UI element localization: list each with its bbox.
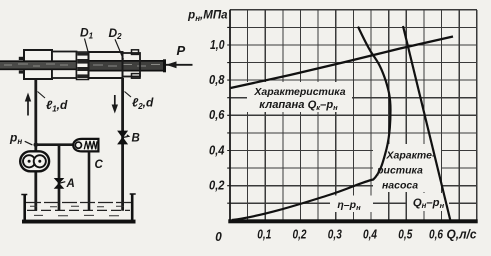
leader Pn <box>25 141 33 145</box>
leader D1 <box>85 39 89 52</box>
housing left tab <box>19 57 24 60</box>
svg-text:C: C <box>95 159 104 171</box>
shaft left section <box>0 60 78 70</box>
pipe l2 vertical <box>121 78 124 211</box>
pump flow curve Qn-pn <box>403 26 451 221</box>
svg-text:0,6: 0,6 <box>209 107 225 122</box>
svg-text:0,4: 0,4 <box>363 228 377 242</box>
svg-text:0,3: 0,3 <box>328 228 342 242</box>
label box Qn-pn <box>407 193 449 211</box>
shaft right section <box>89 59 167 72</box>
relief valve C (ball + spring) <box>73 139 98 152</box>
svg-text:0,8: 0,8 <box>209 72 225 87</box>
liquid line 2 <box>27 209 130 211</box>
flange bottom bolt <box>132 74 141 79</box>
svg-text:0,2: 0,2 <box>293 228 307 242</box>
svg-text:P: P <box>177 43 186 58</box>
svg-text:ристика: ристика <box>376 165 423 177</box>
cylinder housing left block <box>24 50 52 79</box>
tank walls <box>25 194 133 222</box>
label l1,d leader <box>38 92 46 99</box>
liquid short dashes <box>30 205 124 208</box>
label box eta-pn <box>330 196 373 213</box>
grid vertical lines <box>230 10 477 221</box>
svg-text:Характеристика: Характеристика <box>253 86 345 98</box>
svg-text:насоса: насоса <box>382 180 418 192</box>
tank bottom <box>22 220 136 224</box>
pump Pn symbol <box>20 151 49 171</box>
liquid surface line <box>26 202 131 204</box>
pump efficiency curve eta-pn <box>232 27 391 220</box>
cylinder housing right block <box>89 52 123 78</box>
svg-text:1,0: 1,0 <box>210 37 225 52</box>
svg-text:0,1: 0,1 <box>257 228 271 242</box>
svg-text:0,6: 0,6 <box>429 228 444 242</box>
end gland flange <box>123 53 141 77</box>
svg-text:клапана Qк–pн: клапана Qк–pн <box>259 99 338 112</box>
force arrow P <box>166 61 193 68</box>
grid horizontal lines <box>230 10 477 221</box>
y axis ticks <box>227 27 230 203</box>
flange top bolt <box>132 50 139 55</box>
svg-text:Характе-: Характе- <box>386 150 436 162</box>
flow arrow down <box>112 95 118 114</box>
svg-text:0,4: 0,4 <box>209 142 225 157</box>
pipe below C <box>88 152 91 211</box>
leader D2 <box>115 39 124 59</box>
label l2,d leader <box>125 92 132 98</box>
flow arrow up <box>25 93 31 116</box>
svg-text:0,2: 0,2 <box>209 178 225 193</box>
junction node <box>34 142 39 147</box>
valve B <box>118 131 129 144</box>
cylinder housing middle block <box>52 52 77 79</box>
label box pump characteristic <box>373 144 441 192</box>
x axis thick line <box>228 219 477 223</box>
y axis line <box>229 10 231 221</box>
svg-text:pн,МПа: pн,МПа <box>187 10 228 24</box>
housing left tab lower <box>19 70 24 73</box>
valve A <box>55 178 66 188</box>
svg-text:Q,л/с: Q,л/с <box>447 228 477 242</box>
svg-text:B: B <box>132 133 140 145</box>
svg-text:0: 0 <box>215 229 222 244</box>
label box valve characteristic <box>247 82 352 112</box>
branch line to valve A and relief valve C <box>36 143 74 146</box>
svg-text:ℓ1,d: ℓ1,d <box>46 98 68 114</box>
pipe l1 vertical <box>34 79 37 211</box>
tank rim lips <box>21 193 135 196</box>
pipe of valve A <box>58 145 61 211</box>
svg-text:0,5: 0,5 <box>398 228 413 242</box>
svg-text:A: A <box>66 178 75 190</box>
liquid short dashes row 2 <box>34 214 119 216</box>
svg-text:ℓ2,d: ℓ2,d <box>132 96 154 112</box>
piston ring stack D1 <box>77 52 89 80</box>
valve characteristic curve Qk-pn <box>231 37 454 89</box>
